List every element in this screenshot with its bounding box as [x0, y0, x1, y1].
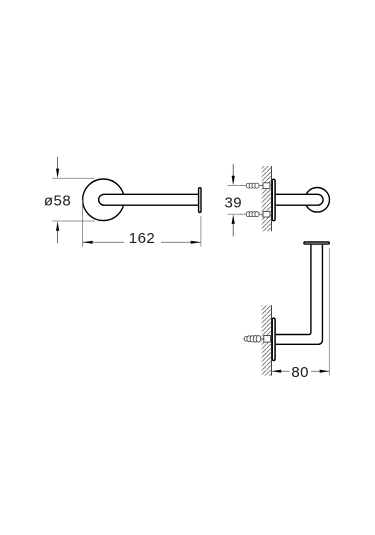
dimension line 162 right segment: [161, 241, 201, 243]
dimension line 80 right segment: [311, 370, 329, 372]
svg-text:80: 80: [291, 364, 309, 381]
dimension 39 top arrow tail: [232, 164, 234, 177]
extension line upper (39): [228, 185, 244, 187]
dimension 39 top arrowhead: [232, 176, 235, 186]
dimension 39 bottom arrowhead: [232, 214, 235, 224]
dimension o58 top arrow tail: [57, 157, 59, 170]
lower screw centre line: [240, 213, 246, 215]
knob ring (side view): [305, 188, 330, 213]
wall section hatch (top view): [262, 305, 272, 375]
wall plate (top view): [272, 318, 275, 360]
roll-holder bar (front view): [99, 194, 200, 205]
dimension 80 right arrowhead: [320, 370, 330, 373]
wall face line (side view): [271, 166, 273, 231]
screw body (top view): [264, 336, 271, 343]
lower screw body: [263, 211, 270, 217]
extension line bottom of circle (o58): [52, 220, 94, 222]
dimension 39 bottom arrow tail: [232, 223, 234, 237]
end knob (front view): [199, 188, 201, 213]
wall section hatch (side view): [262, 166, 272, 231]
extension line left (162): [81, 200, 83, 247]
wall face line (top view): [271, 305, 273, 375]
svg-text:39: 39: [224, 195, 242, 212]
dimension line 80 left segment: [272, 370, 290, 372]
upper screw body: [263, 183, 270, 189]
wall plate (side view): [272, 179, 275, 220]
screw thread (top view): [244, 336, 261, 343]
svg-text:ø58: ø58: [44, 193, 71, 210]
extension line lower (39): [228, 213, 244, 215]
extension line right (162): [200, 216, 202, 246]
dimension 162 right arrowhead: [191, 241, 201, 244]
svg-text:162: 162: [129, 230, 156, 247]
dimension line 162 left segment: [82, 241, 124, 243]
bar (side view): [276, 194, 324, 205]
dimension o58 bottom arrowhead: [56, 221, 59, 231]
extension line top of circle (o58): [52, 177, 94, 179]
dimension 162 left arrowhead: [82, 241, 92, 244]
bar outer contour (top view): [276, 245, 322, 344]
dimension o58 top arrowhead: [56, 169, 59, 179]
screw centre line (top view): [243, 338, 246, 340]
lower screw thread: [246, 212, 259, 217]
bar inner contour (top view): [276, 245, 311, 335]
screw neck (top view): [261, 338, 264, 340]
dimension 80 left arrowhead: [272, 370, 282, 373]
extension line right (80): [328, 248, 330, 375]
upper screw neck: [259, 185, 263, 187]
end knob (top view): [304, 242, 329, 244]
upper screw centre line: [240, 185, 246, 187]
lower screw neck: [259, 213, 263, 215]
upper screw thread: [246, 183, 259, 188]
wall rosette circle (front view): [83, 179, 125, 221]
dimension o58 bottom arrow tail: [57, 230, 59, 243]
